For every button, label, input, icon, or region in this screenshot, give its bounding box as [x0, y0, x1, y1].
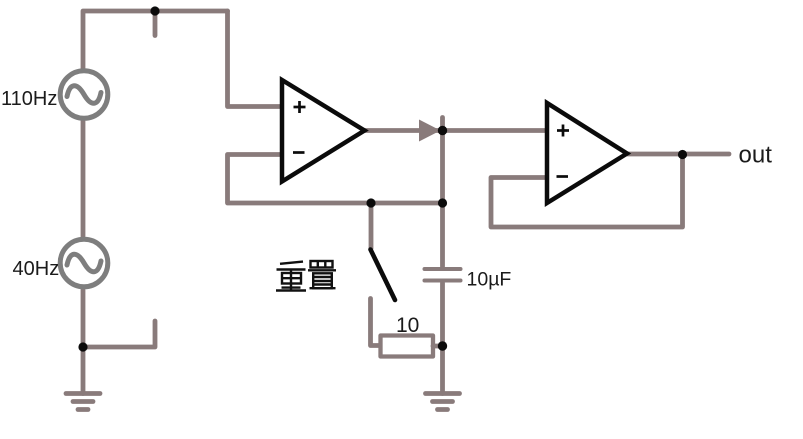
svg-text:110Hz: 110Hz	[1, 88, 57, 110]
svg-text:40Hz: 40Hz	[13, 258, 60, 280]
svg-text:out: out	[739, 142, 773, 169]
svg-text:10: 10	[396, 314, 419, 337]
svg-text:10µF: 10µF	[467, 269, 512, 291]
